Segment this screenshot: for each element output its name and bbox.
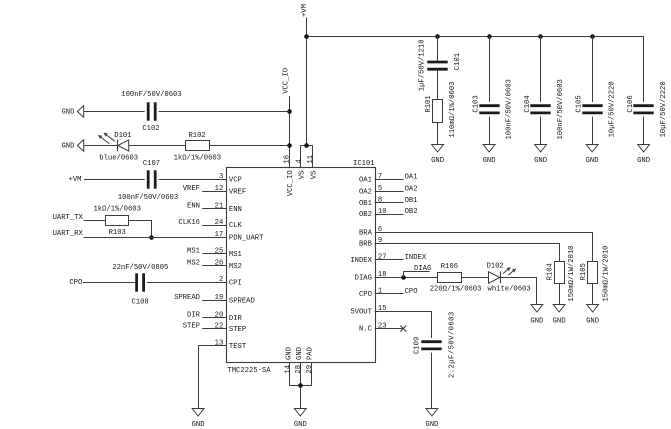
svg-text:4: 4: [295, 159, 303, 163]
svg-text:TEST: TEST: [229, 343, 247, 351]
svg-text:C107: C107: [143, 160, 160, 168]
svg-text:GND: GND: [296, 347, 304, 360]
svg-text:110mΩ/1%/0603: 110mΩ/1%/0603: [449, 82, 457, 138]
svg-text:27: 27: [378, 254, 387, 262]
svg-text:CPO: CPO: [405, 288, 418, 296]
svg-text:D102: D102: [486, 262, 503, 270]
svg-text:blue/0603: blue/0603: [99, 154, 138, 162]
svg-text:10µF/50V/2220: 10µF/50V/2220: [660, 81, 668, 137]
svg-text:BRB: BRB: [359, 240, 373, 248]
svg-text:OA1: OA1: [359, 177, 372, 185]
svg-text:GND: GND: [483, 157, 496, 165]
svg-text:INDEX: INDEX: [350, 257, 372, 265]
svg-text:SPREAD: SPREAD: [229, 298, 255, 306]
svg-text:OB2: OB2: [405, 208, 418, 216]
svg-text:1kΩ/1%/0603: 1kΩ/1%/0603: [174, 154, 221, 162]
svg-text:MS1: MS1: [229, 251, 242, 259]
svg-text:C102: C102: [142, 125, 159, 133]
svg-text:ENN: ENN: [187, 203, 200, 211]
svg-text:STEP: STEP: [183, 323, 200, 331]
svg-text:26: 26: [215, 260, 224, 268]
svg-text:VREF: VREF: [183, 185, 200, 193]
svg-text:GND: GND: [294, 421, 307, 429]
svg-text:DIAG: DIAG: [355, 275, 372, 283]
svg-text:8: 8: [378, 196, 382, 204]
svg-text:OA2: OA2: [359, 188, 372, 196]
svg-text:GND: GND: [586, 317, 599, 325]
svg-text:OA1: OA1: [405, 174, 418, 182]
svg-text:11: 11: [307, 155, 315, 164]
svg-text:TMC2225-SA: TMC2225-SA: [227, 367, 271, 375]
svg-text:150mΩ/1W/2010: 150mΩ/1W/2010: [568, 246, 576, 302]
svg-text:GND: GND: [431, 157, 444, 165]
svg-text:28: 28: [295, 365, 303, 374]
svg-text:OB1: OB1: [359, 200, 372, 208]
svg-text:CLK: CLK: [229, 222, 243, 230]
svg-text:+VM: +VM: [301, 4, 309, 17]
svg-text:+VM: +VM: [69, 176, 82, 184]
svg-text:GND: GND: [285, 347, 293, 360]
svg-text:CPO: CPO: [69, 279, 82, 287]
svg-text:GND: GND: [586, 157, 599, 165]
svg-text:C104: C104: [524, 95, 532, 112]
svg-text:22: 22: [215, 323, 224, 331]
svg-text:GND: GND: [637, 157, 650, 165]
svg-text:DIAG: DIAG: [414, 265, 431, 273]
svg-text:29: 29: [306, 365, 314, 374]
svg-text:GND: GND: [425, 421, 438, 429]
svg-text:22nF/50V/0805: 22nF/50V/0805: [112, 264, 168, 272]
svg-text:R101: R101: [425, 95, 433, 112]
svg-text:R106: R106: [441, 263, 458, 271]
svg-text:220Ω/1%/0603: 220Ω/1%/0603: [430, 285, 482, 293]
svg-text:OA2: OA2: [405, 185, 418, 193]
svg-text:VCC_IO: VCC_IO: [282, 68, 290, 94]
svg-text:1: 1: [378, 288, 382, 296]
svg-text:white/0603: white/0603: [488, 285, 531, 293]
svg-text:C108: C108: [131, 298, 148, 306]
svg-text:R105: R105: [580, 263, 588, 280]
svg-text:VCP: VCP: [229, 177, 242, 185]
svg-text:N.C: N.C: [359, 326, 373, 334]
svg-text:CLK16: CLK16: [178, 219, 200, 227]
svg-text:DIR: DIR: [187, 311, 201, 319]
svg-text:23: 23: [378, 322, 387, 330]
svg-text:2.2µF/50V/0603: 2.2µF/50V/0603: [449, 311, 457, 378]
svg-text:1kΩ/1%/0603: 1kΩ/1%/0603: [93, 205, 140, 213]
svg-text:5VOUT: 5VOUT: [350, 308, 372, 316]
svg-text:D101: D101: [114, 132, 131, 140]
svg-text:UART_RX: UART_RX: [53, 230, 84, 238]
svg-text:R103: R103: [109, 229, 126, 237]
svg-text:VCC_IO: VCC_IO: [287, 170, 295, 196]
svg-text:ENN: ENN: [229, 206, 242, 214]
svg-text:150mΩ/1W/2010: 150mΩ/1W/2010: [603, 246, 611, 302]
svg-text:VREF: VREF: [229, 188, 246, 196]
svg-text:STEP: STEP: [229, 326, 246, 334]
svg-text:MS2: MS2: [229, 263, 242, 271]
svg-text:OB1: OB1: [405, 197, 418, 205]
svg-text:IC101: IC101: [353, 160, 375, 168]
svg-text:GND: GND: [61, 143, 74, 151]
svg-text:PDN_UART: PDN_UART: [229, 235, 264, 243]
svg-text:1µF/50V/1210: 1µF/50V/1210: [419, 39, 427, 91]
svg-text:GND: GND: [192, 421, 205, 429]
svg-text:GND: GND: [530, 317, 543, 325]
svg-text:CPI: CPI: [229, 279, 242, 287]
svg-text:BRA: BRA: [359, 229, 373, 237]
svg-text:25: 25: [215, 248, 224, 256]
svg-text:16: 16: [284, 155, 292, 164]
svg-text:14: 14: [285, 365, 293, 374]
svg-text:GND: GND: [553, 317, 566, 325]
svg-text:R102: R102: [188, 132, 205, 140]
svg-text:C103: C103: [473, 95, 481, 112]
svg-text:INDEX: INDEX: [405, 254, 427, 262]
svg-text:VS: VS: [310, 171, 318, 180]
svg-text:DIR: DIR: [229, 315, 243, 323]
svg-text:R104: R104: [546, 263, 554, 280]
svg-text:UART_TX: UART_TX: [53, 214, 84, 222]
svg-text:VS: VS: [299, 171, 307, 180]
svg-text:100nF/50V/0603: 100nF/50V/0603: [121, 91, 181, 99]
svg-text:PAD: PAD: [307, 347, 315, 360]
svg-text:C109: C109: [413, 337, 421, 354]
svg-text:10µF/50V/2220: 10µF/50V/2220: [608, 81, 616, 137]
svg-text:MS2: MS2: [187, 260, 200, 268]
svg-text:OB2: OB2: [359, 211, 372, 219]
svg-text:100nF/50V/0603: 100nF/50V/0603: [557, 79, 565, 139]
svg-text:20: 20: [215, 311, 224, 319]
svg-text:MS1: MS1: [187, 248, 200, 256]
svg-text:GND: GND: [534, 157, 547, 165]
svg-text:13: 13: [215, 340, 224, 348]
svg-text:C106: C106: [627, 95, 635, 112]
svg-text:GND: GND: [61, 109, 74, 117]
svg-text:C101: C101: [454, 53, 462, 70]
svg-text:CPO: CPO: [359, 291, 372, 299]
svg-text:SPREAD: SPREAD: [174, 294, 200, 302]
svg-text:21: 21: [215, 203, 224, 211]
svg-text:100nF/50V/0603: 100nF/50V/0603: [505, 79, 513, 139]
svg-text:100nF/50V/0603: 100nF/50V/0603: [118, 194, 178, 202]
svg-text:C105: C105: [576, 95, 584, 112]
